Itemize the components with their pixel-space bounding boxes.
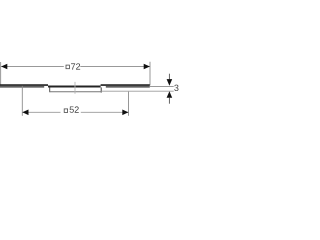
plate bottom edge left segment	[0, 86, 44, 88]
dimension line 72 right segment	[80, 66, 150, 68]
plate top edge right segment	[101, 84, 150, 86]
extension line left of bottom dimension	[21, 86, 23, 116]
plate top edge left segment	[0, 84, 48, 86]
extension line right of top dimension	[149, 62, 151, 86]
stem below up arrow of thickness dimension	[168, 98, 170, 104]
square symbol of label 52	[64, 109, 67, 113]
label 72	[71, 63, 80, 69]
label 3	[174, 85, 178, 91]
frame left edge under plate	[49, 87, 51, 92]
plate bottom edge line right	[101, 90, 174, 92]
extension line left of top dimension	[0, 62, 2, 86]
square symbol of label 72	[66, 65, 69, 69]
arrowhead left of dimension 52	[22, 110, 28, 116]
up arrowhead of thickness dimension	[167, 91, 173, 98]
frame bottom line	[50, 91, 101, 93]
stem above down arrow of thickness dimension	[168, 74, 170, 80]
extension line top of thickness dimension	[150, 86, 174, 88]
extension line right of bottom dimension	[128, 92, 130, 116]
recessed lid line	[48, 86, 101, 88]
frame right edge under plate	[100, 87, 102, 92]
dimension line 72 left segment	[1, 66, 64, 68]
dimension line 52 left segment	[22, 111, 60, 113]
arrowhead right of dimension 52	[122, 110, 128, 116]
dimension line 52 right segment	[81, 111, 129, 113]
plate bottom edge right segment	[106, 86, 150, 88]
down arrowhead of thickness dimension	[167, 79, 173, 86]
arrowhead left of dimension 72	[1, 64, 7, 70]
centerline	[74, 82, 76, 94]
arrowhead right of dimension 72	[144, 64, 150, 70]
label 52	[70, 106, 79, 112]
